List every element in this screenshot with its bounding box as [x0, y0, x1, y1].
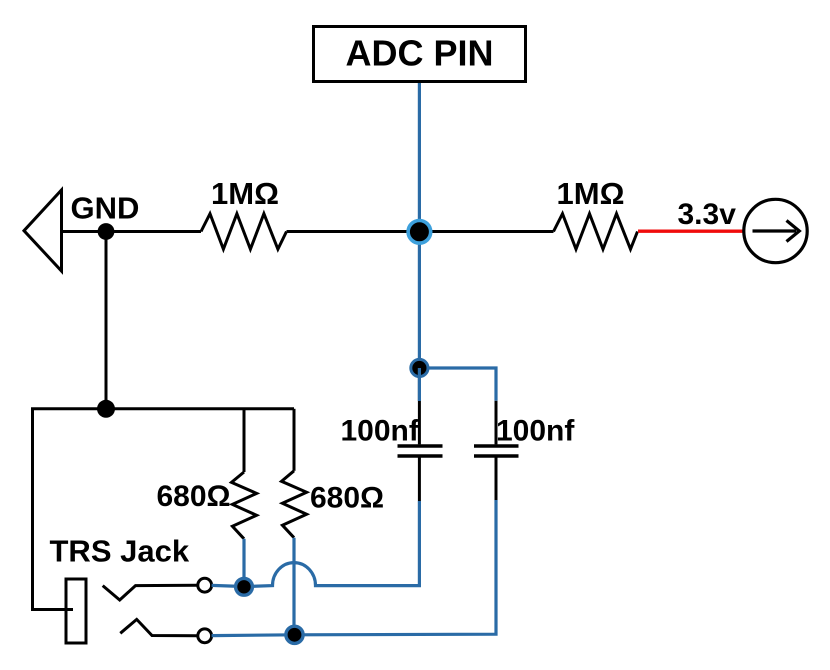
svg-text:680Ω: 680Ω: [310, 482, 384, 515]
terminal: ring open circle: [198, 629, 212, 643]
voltage source V1 (circle with arrow): [744, 199, 807, 262]
wire: blue from C1 bottom to switch node with hop over vertical wire: [244, 501, 419, 587]
capacitor C2 top lead (black): [495, 401, 498, 445]
switch contact: ring lever: [120, 619, 198, 635]
svg-text:3.3v: 3.3v: [678, 198, 737, 231]
capacitor C1 plates: [398, 446, 443, 456]
node: ring junction (black with blue ring): [286, 626, 303, 643]
resistor R3 680Ω (vertical left): [232, 472, 257, 539]
capacitor C2 bottom lead (black): [495, 458, 498, 501]
wire: blue branch right to capacitor C2: [419, 368, 496, 401]
wire: blue lead from R3 bottom to node: [242, 539, 245, 587]
svg-text:GND: GND: [71, 190, 140, 225]
box ADC PIN: [314, 27, 526, 82]
switch contact: tip lever: [103, 585, 198, 600]
capacitor C1 top lead blue overlay: [418, 368, 421, 401]
svg-text:TRS Jack: TRS Jack: [50, 533, 190, 568]
wire: blue vertical from main node down to junction node: [418, 232, 421, 368]
wire: blue from C2 bottom down and left to ring node: [295, 500, 497, 635]
resistor R2 1MΩ (horizontal): [554, 214, 638, 250]
node: main ADC node (black with light blue ring): [408, 221, 431, 244]
wire: vertical drop to resistor R3: [243, 409, 246, 472]
capacitor C1 bottom lead (black): [418, 458, 421, 502]
node: capacitor junction (black with blue ring): [411, 359, 428, 376]
svg-text:1MΩ: 1MΩ: [557, 176, 625, 211]
wire: R1 to R2 through main node: [287, 230, 554, 233]
wire: GND triangle to resistor R1: [62, 230, 202, 233]
svg-text:680Ω: 680Ω: [157, 480, 231, 513]
node: sleeve junction: [97, 400, 115, 418]
resistor R1 1MΩ (horizontal): [201, 214, 287, 250]
jack body (rectangle): [66, 579, 86, 643]
svg-text:100nf: 100nf: [496, 415, 575, 448]
ground symbol: [24, 190, 62, 271]
svg-text:100nf: 100nf: [341, 415, 420, 448]
svg-text:1MΩ: 1MΩ: [211, 176, 279, 211]
wire: vertical drop to resistor R4: [293, 409, 296, 471]
capacitor C2 plates: [474, 446, 519, 456]
wire: red 3.3v supply wire: [638, 230, 744, 233]
wire: blue tip link to node: [212, 585, 240, 586]
wire: blue vertical from ADC PIN box to main node: [418, 81, 421, 232]
resistor R4 680Ω (vertical right): [282, 471, 307, 538]
wire: blue lead from R4 bottom to bottom node: [292, 538, 295, 635]
svg-text:ADC PIN: ADC PIN: [345, 33, 493, 74]
node: tip junction (black with blue ring): [236, 578, 253, 595]
node: GND junction: [98, 223, 115, 240]
wire: black vertical from GND node down: [105, 232, 108, 409]
wire: blue ring link to bottom node: [212, 633, 295, 637]
capacitor C1 top lead (black): [418, 368, 421, 444]
wire: black horizontal bus to jack sleeve: [33, 409, 295, 610]
terminal: tip open circle: [198, 578, 212, 592]
